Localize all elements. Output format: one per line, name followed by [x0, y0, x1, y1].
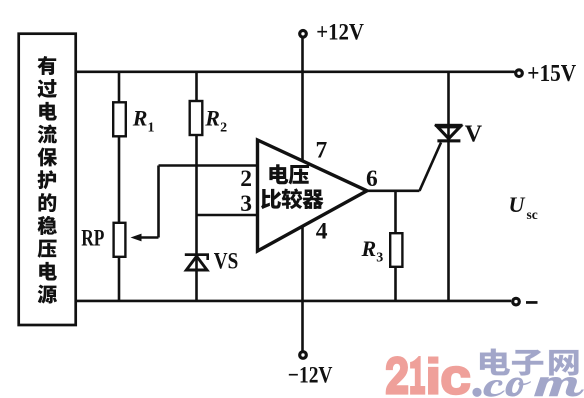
svg-text:1: 1 — [148, 120, 155, 135]
svg-text:RP: RP — [81, 226, 104, 251]
svg-text:−12V: −12V — [288, 362, 333, 388]
svg-text:R: R — [132, 105, 148, 130]
svg-text:sc: sc — [527, 207, 538, 222]
svg-text:3: 3 — [376, 251, 383, 266]
svg-text:U: U — [509, 192, 526, 217]
svg-text:3: 3 — [240, 191, 252, 217]
svg-text:R: R — [361, 236, 377, 261]
svg-text:V: V — [465, 122, 483, 148]
svg-text:7: 7 — [316, 137, 328, 163]
svg-text:+15V: +15V — [527, 61, 576, 87]
svg-text:4: 4 — [316, 219, 328, 245]
svg-text:2: 2 — [240, 166, 252, 192]
svg-text:2: 2 — [220, 120, 227, 135]
svg-text:6: 6 — [366, 166, 378, 192]
svg-text:+12V: +12V — [316, 19, 364, 45]
svg-text:VS: VS — [214, 248, 239, 273]
svg-text:R: R — [204, 105, 220, 130]
